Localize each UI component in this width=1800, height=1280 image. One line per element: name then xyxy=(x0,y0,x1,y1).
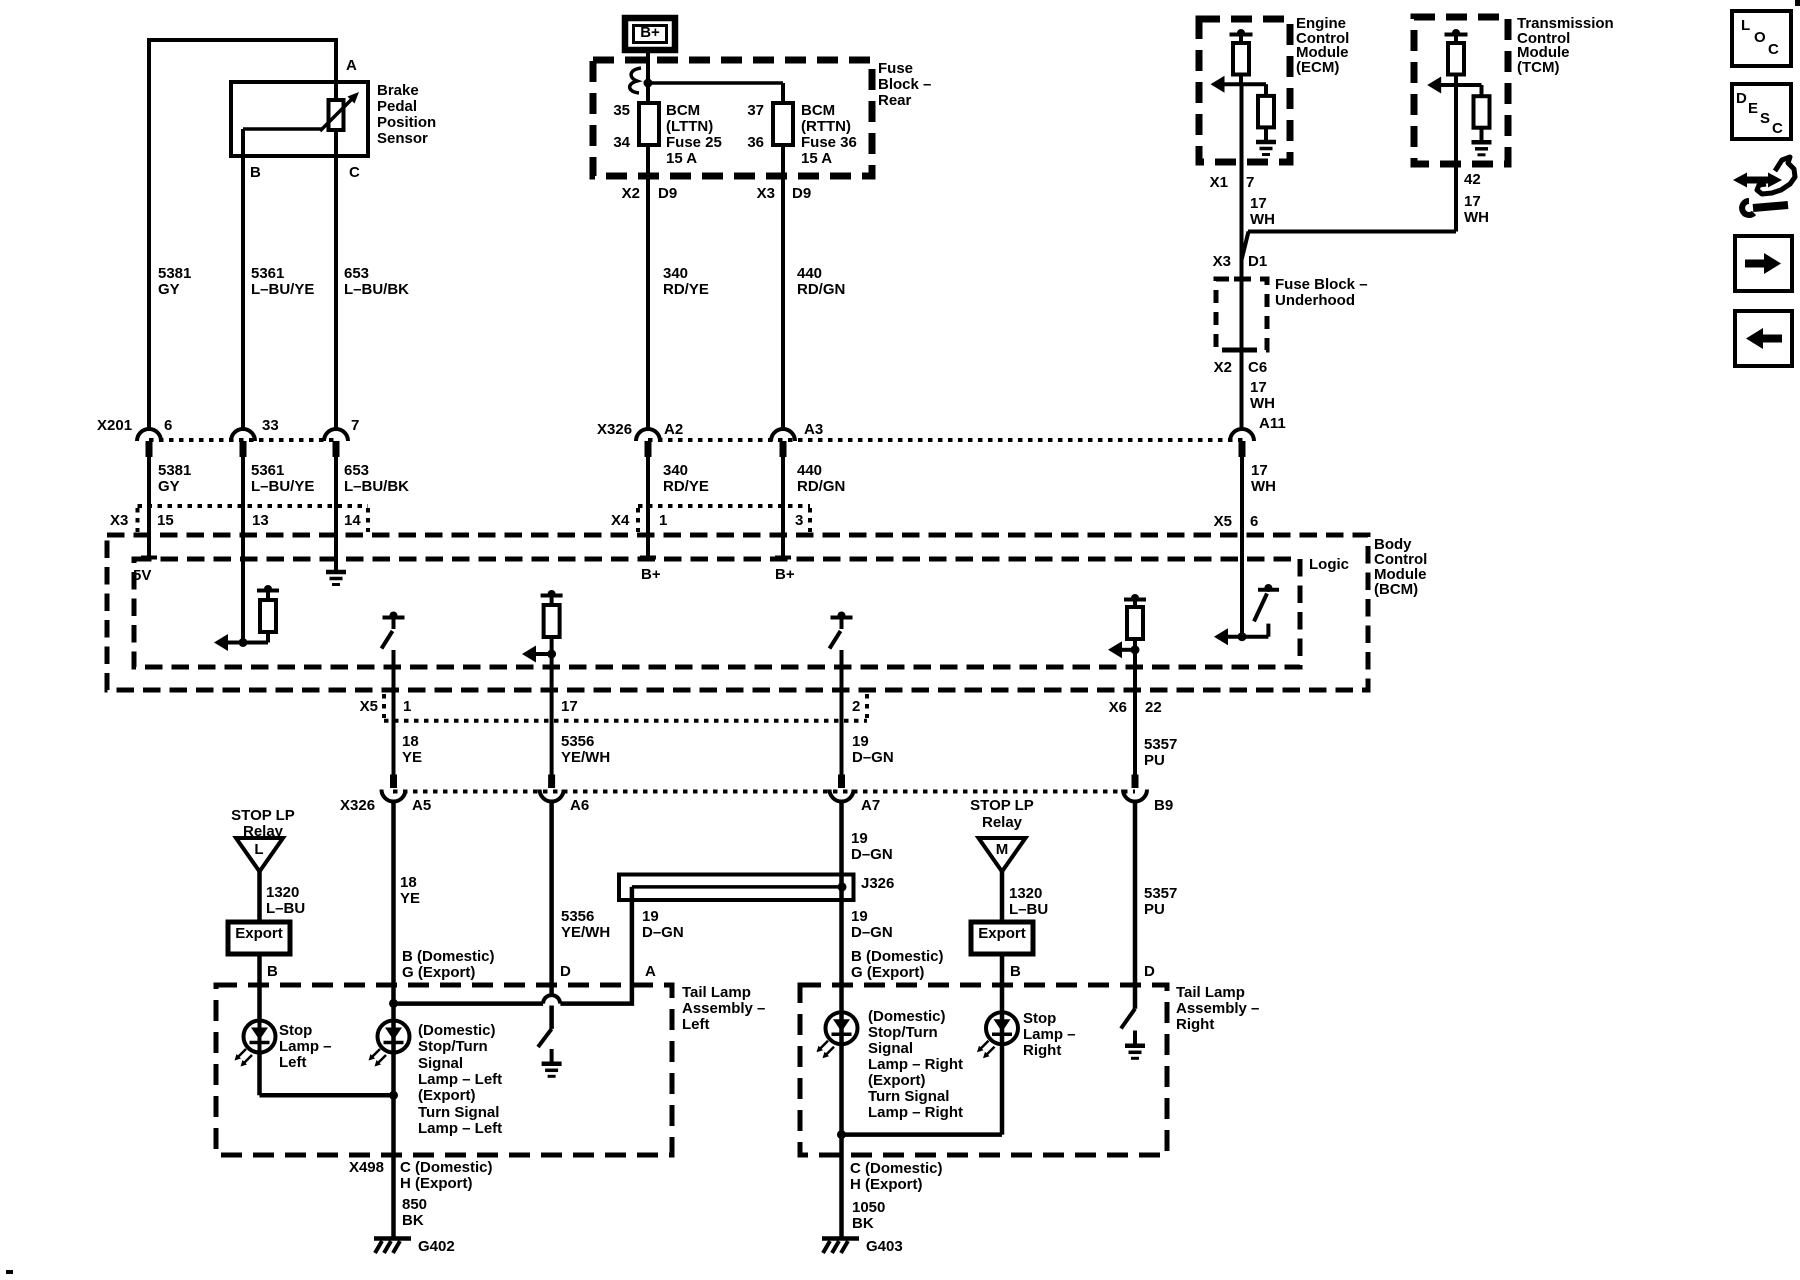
wire B+ feed xyxy=(646,50,650,103)
svg-text:B: B xyxy=(250,164,261,181)
splice pack J326 xyxy=(619,875,854,901)
node B+ pin1 xyxy=(640,556,656,560)
export box right xyxy=(971,922,1033,954)
svg-text:33: 33 xyxy=(262,417,279,434)
wire TCM pin 42 xyxy=(1454,85,1458,232)
page corner marks xyxy=(1795,0,1800,6)
wire 5381 GY lower xyxy=(147,457,151,559)
connector pin A5 xyxy=(390,775,397,789)
stop/turn left rays xyxy=(371,1049,380,1058)
connector pin A11 xyxy=(1230,429,1254,441)
svg-text:STOP LP: STOP LP xyxy=(970,797,1034,814)
svg-text:X326: X326 xyxy=(597,421,632,438)
svg-text:B9: B9 xyxy=(1154,797,1173,814)
junction pin13 xyxy=(239,638,248,647)
svg-text:1: 1 xyxy=(659,512,667,529)
svg-text:D: D xyxy=(560,963,571,980)
svg-text:18: 18 xyxy=(402,733,419,750)
svg-text:C (Domestic): C (Domestic) xyxy=(400,1159,493,1176)
svg-text:(BCM): (BCM) xyxy=(1374,581,1418,598)
stop lamp left bulb xyxy=(244,1021,276,1053)
svg-text:X3: X3 xyxy=(110,512,128,529)
svg-text:Lamp – Right: Lamp – Right xyxy=(868,1056,963,1073)
ground G402 xyxy=(374,1236,411,1241)
svg-text:J326: J326 xyxy=(861,875,894,892)
svg-text:Lamp – Left: Lamp – Left xyxy=(418,1120,502,1137)
svg-text:BK: BK xyxy=(852,1215,874,1232)
wire stop lamp right to junction xyxy=(1000,1044,1005,1134)
svg-text:G403: G403 xyxy=(866,1238,903,1255)
fuse 36 BCM RTTN xyxy=(773,103,793,145)
svg-text:Stop: Stop xyxy=(1023,1010,1056,1027)
svg-text:L: L xyxy=(1741,17,1750,34)
svg-text:YE/WH: YE/WH xyxy=(561,749,610,766)
connector pin A2 xyxy=(636,429,660,441)
svg-text:19: 19 xyxy=(851,830,868,847)
wire 17 WH through underhood block xyxy=(1240,279,1244,429)
svg-text:BCM: BCM xyxy=(801,102,835,119)
wire 5356 YE/WH to lamp switch xyxy=(549,802,554,996)
svg-text:42: 42 xyxy=(1464,171,1481,188)
export box left xyxy=(228,922,290,954)
svg-text:6: 6 xyxy=(164,417,172,434)
svg-text:H (Export): H (Export) xyxy=(400,1175,473,1192)
wire 653 C leg xyxy=(334,156,338,429)
svg-text:5381: 5381 xyxy=(158,265,191,282)
svg-text:1320: 1320 xyxy=(266,884,299,901)
icon wiring squiggle xyxy=(1744,177,1770,184)
TCM internal pullup resistor xyxy=(1452,29,1460,37)
connector pin A7 xyxy=(838,775,845,789)
svg-text:Signal: Signal xyxy=(418,1055,463,1072)
svg-text:(Export): (Export) xyxy=(418,1087,476,1104)
svg-text:Turn Signal: Turn Signal xyxy=(418,1104,499,1121)
BCM pin13 input arrow xyxy=(228,641,268,645)
svg-text:A6: A6 xyxy=(570,797,589,814)
svg-text:Logic: Logic xyxy=(1309,556,1349,573)
svg-text:WH: WH xyxy=(1250,211,1275,228)
svg-text:Sensor: Sensor xyxy=(377,130,428,147)
svg-text:Right: Right xyxy=(1023,1042,1061,1059)
TCM dashed box xyxy=(1414,17,1508,164)
svg-text:(LTTN): (LTTN) xyxy=(666,118,713,135)
wire 19 D-GN branch to pin A xyxy=(560,887,632,1004)
svg-text:A2: A2 xyxy=(664,421,683,438)
svg-text:Assembly –: Assembly – xyxy=(682,1000,765,1017)
connector pin A3 xyxy=(771,429,795,441)
wire fuse36 out D9 xyxy=(781,145,785,429)
svg-text:Fuse 25: Fuse 25 xyxy=(666,134,722,151)
svg-text:15 A: 15 A xyxy=(666,150,697,167)
svg-text:L–BU/BK: L–BU/BK xyxy=(344,478,409,495)
svg-text:Brake: Brake xyxy=(377,82,419,99)
BCM pullup 5356 xyxy=(548,590,556,598)
tail lamp assembly right dashed box xyxy=(800,985,1167,1155)
wire 653 L-BU/BK lower xyxy=(334,457,338,535)
svg-text:5356: 5356 xyxy=(561,733,594,750)
TCM internal ground xyxy=(1472,140,1492,145)
svg-text:19: 19 xyxy=(642,908,659,925)
svg-text:(RTTN): (RTTN) xyxy=(801,118,851,135)
svg-text:Right: Right xyxy=(1176,1016,1214,1033)
connector pin A6 xyxy=(548,775,555,789)
svg-text:440: 440 xyxy=(797,462,822,479)
svg-text:Stop/Turn: Stop/Turn xyxy=(868,1024,938,1041)
svg-text:Rear: Rear xyxy=(878,92,912,109)
svg-text:Export: Export xyxy=(235,925,283,942)
ECM input arrow xyxy=(1224,82,1241,86)
wire 1320 L-BU left xyxy=(257,872,262,923)
svg-text:D–GN: D–GN xyxy=(642,924,684,941)
svg-text:D: D xyxy=(1144,963,1155,980)
svg-text:653: 653 xyxy=(344,462,369,479)
svg-text:D9: D9 xyxy=(658,185,677,202)
wire 19 D-GN upper xyxy=(840,650,844,775)
svg-text:(TCM): (TCM) xyxy=(1517,59,1559,76)
BCM pullup X6-22 xyxy=(1131,594,1139,602)
svg-text:Tail Lamp: Tail Lamp xyxy=(1176,984,1245,1001)
potentiometer inside sensor xyxy=(334,82,338,100)
ECM internal ground xyxy=(1256,140,1276,145)
svg-text:RD/GN: RD/GN xyxy=(797,478,845,495)
svg-text:17: 17 xyxy=(1250,379,1267,396)
svg-text:35: 35 xyxy=(613,102,630,119)
svg-text:6: 6 xyxy=(1250,513,1258,530)
svg-text:B+: B+ xyxy=(775,566,795,583)
svg-text:Relay: Relay xyxy=(982,814,1023,831)
wire horizontal to A5 junction xyxy=(394,1001,544,1006)
svg-text:X498: X498 xyxy=(349,1159,384,1176)
BCM 5356 arrow xyxy=(536,652,552,656)
svg-text:5357: 5357 xyxy=(1144,736,1177,753)
svg-text:Left: Left xyxy=(682,1016,710,1033)
svg-text:19: 19 xyxy=(851,908,868,925)
svg-text:C: C xyxy=(349,164,360,181)
svg-text:X201: X201 xyxy=(97,417,132,434)
svg-text:Fuse Block –: Fuse Block – xyxy=(1275,276,1368,293)
svg-text:YE/WH: YE/WH xyxy=(561,924,610,941)
wiper wire from B xyxy=(241,129,245,156)
svg-text:340: 340 xyxy=(663,462,688,479)
TCM internal resistor to ground xyxy=(1456,83,1482,87)
svg-text:Fuse 36: Fuse 36 xyxy=(801,134,857,151)
svg-text:X5: X5 xyxy=(360,698,378,715)
svg-text:X326: X326 xyxy=(340,797,375,814)
svg-text:B+: B+ xyxy=(641,566,661,583)
svg-text:WH: WH xyxy=(1251,478,1276,495)
svg-text:5V: 5V xyxy=(133,567,151,584)
svg-text:L: L xyxy=(254,841,263,858)
svg-text:19: 19 xyxy=(852,733,869,750)
svg-text:M: M xyxy=(996,841,1009,858)
BCM driver A11 xyxy=(1264,584,1272,592)
svg-text:Position: Position xyxy=(377,114,436,131)
wire 340 RD/YE lower xyxy=(646,457,650,558)
wire to stop lamp right xyxy=(1000,954,1005,1044)
svg-text:3: 3 xyxy=(795,512,803,529)
wire B9 5357 PU down xyxy=(1133,802,1138,1009)
ground G403 xyxy=(822,1236,859,1241)
svg-text:X4: X4 xyxy=(611,512,630,529)
node 5V xyxy=(141,556,157,560)
svg-text:D–GN: D–GN xyxy=(851,924,893,941)
wire 5361 L-BU/YE lower xyxy=(241,457,245,535)
svg-text:5356: 5356 xyxy=(561,908,594,925)
stop/turn right rays xyxy=(819,1041,828,1050)
svg-text:Stop: Stop xyxy=(279,1022,312,1039)
connector X201 pin 33 xyxy=(231,429,255,441)
wire 5356 YE/WH upper xyxy=(550,654,554,775)
svg-text:S: S xyxy=(1760,110,1770,127)
BCM logic dashed box xyxy=(134,559,1300,667)
svg-text:X5: X5 xyxy=(1214,513,1232,530)
svg-text:Lamp – Left: Lamp – Left xyxy=(418,1071,502,1088)
svg-text:X3: X3 xyxy=(757,185,775,202)
svg-text:1320: 1320 xyxy=(1009,885,1042,902)
svg-text:X2: X2 xyxy=(1214,359,1232,376)
svg-text:D1: D1 xyxy=(1248,253,1267,270)
svg-text:YE: YE xyxy=(402,749,422,766)
svg-text:C: C xyxy=(1772,120,1783,137)
svg-text:36: 36 xyxy=(747,134,764,151)
ECM dashed box xyxy=(1199,19,1290,162)
svg-text:STOP LP: STOP LP xyxy=(231,807,295,824)
wiper arrow xyxy=(320,99,352,131)
D switch to ground right xyxy=(1121,1009,1135,1029)
svg-text:Pedal: Pedal xyxy=(377,98,417,115)
svg-text:X2: X2 xyxy=(622,185,640,202)
BCM driver switch A5 xyxy=(390,612,398,620)
svg-text:Lamp – Right: Lamp – Right xyxy=(868,1104,963,1121)
tail lamp assembly left dashed box xyxy=(216,985,672,1155)
fuse block rear dashed box xyxy=(593,60,872,176)
svg-text:L–BU/YE: L–BU/YE xyxy=(251,478,314,495)
BCM pin14 internal ground xyxy=(334,535,338,572)
svg-text:Turn Signal: Turn Signal xyxy=(868,1088,949,1105)
stop lamp right rays xyxy=(980,1041,989,1050)
svg-text:Left: Left xyxy=(279,1054,307,1071)
svg-text:A7: A7 xyxy=(861,797,880,814)
BCM X6 arrow xyxy=(1122,648,1135,652)
svg-text:GY: GY xyxy=(158,281,180,298)
wire 5361 B leg xyxy=(241,156,245,429)
ECM internal pullup resistor xyxy=(1237,29,1245,37)
svg-text:14: 14 xyxy=(344,512,361,529)
svg-text:(Domestic): (Domestic) xyxy=(418,1022,496,1039)
svg-text:1050: 1050 xyxy=(852,1199,885,1216)
svg-text:E: E xyxy=(1748,100,1758,117)
svg-text:C6: C6 xyxy=(1248,359,1267,376)
svg-text:X6: X6 xyxy=(1109,699,1127,716)
stop lamp left rays xyxy=(237,1049,246,1058)
svg-text:GY: GY xyxy=(158,478,180,495)
svg-text:WH: WH xyxy=(1464,209,1489,226)
svg-text:A: A xyxy=(645,963,656,980)
svg-text:B: B xyxy=(1010,963,1021,980)
wire 440 RD/GN lower xyxy=(781,457,785,558)
svg-text:850: 850 xyxy=(402,1196,427,1213)
svg-text:(Domestic): (Domestic) xyxy=(868,1008,946,1025)
stop/turn signal lamp left bulb xyxy=(378,1021,410,1053)
svg-text:L–BU/YE: L–BU/YE xyxy=(251,281,314,298)
svg-text:L–BU: L–BU xyxy=(266,900,305,917)
svg-text:13: 13 xyxy=(252,512,269,529)
BCM pin13 pullup resistor xyxy=(264,585,272,593)
svg-text:18: 18 xyxy=(400,874,417,891)
svg-text:L–BU/BK: L–BU/BK xyxy=(344,281,409,298)
svg-text:Fuse: Fuse xyxy=(878,60,913,77)
wire to stop lamp left xyxy=(257,954,262,1021)
svg-text:G (Export): G (Export) xyxy=(851,964,924,981)
wire TCM to ECM junction xyxy=(1248,230,1456,234)
splice clip symbol xyxy=(630,68,641,93)
wire 1320 L-BU right xyxy=(1000,872,1005,923)
svg-text:5361: 5361 xyxy=(251,265,284,282)
svg-text:37: 37 xyxy=(747,102,764,119)
svg-text:653: 653 xyxy=(344,265,369,282)
svg-text:1: 1 xyxy=(403,698,411,715)
svg-text:RD/YE: RD/YE xyxy=(663,281,709,298)
svg-text:RD/YE: RD/YE xyxy=(663,478,709,495)
BCM driver switch A7 xyxy=(838,612,846,620)
svg-text:Tail Lamp: Tail Lamp xyxy=(682,984,751,1001)
svg-text:7: 7 xyxy=(351,417,359,434)
connector X201 pin 7 xyxy=(324,429,348,441)
body control module dashed box xyxy=(107,535,1368,690)
svg-text:PU: PU xyxy=(1144,752,1165,769)
node B+ pin3 xyxy=(775,556,791,560)
svg-text:2: 2 xyxy=(852,698,860,715)
svg-text:(Export): (Export) xyxy=(868,1072,926,1089)
svg-text:A3: A3 xyxy=(804,421,823,438)
connector X326 lower row dotted line xyxy=(393,790,1135,794)
wire 18 YE upper xyxy=(392,650,396,775)
fuse 25 BCM LTTN xyxy=(639,103,659,145)
svg-text:BCM: BCM xyxy=(666,102,700,119)
svg-text:17: 17 xyxy=(1250,195,1267,212)
stop lamp right bulb xyxy=(986,1012,1018,1044)
wire sensor loop: 5381 left leg + top + A leg xyxy=(149,40,336,429)
connector X5 output row dotted line xyxy=(384,719,867,723)
svg-text:L–BU: L–BU xyxy=(1009,901,1048,918)
wire 19 D-GN above J326 xyxy=(839,802,844,1237)
connector X3 dotted box xyxy=(138,504,369,508)
svg-text:Lamp –: Lamp – xyxy=(1023,1026,1076,1043)
svg-text:D: D xyxy=(1736,90,1747,107)
svg-text:440: 440 xyxy=(797,265,822,282)
svg-text:17: 17 xyxy=(1464,193,1481,210)
connector X4 dotted box xyxy=(638,504,810,508)
svg-text:C: C xyxy=(1768,41,1779,58)
svg-text:5381: 5381 xyxy=(158,462,191,479)
J326 internal bus wire xyxy=(632,885,842,889)
svg-text:X3: X3 xyxy=(1213,253,1231,270)
svg-text:BK: BK xyxy=(402,1212,424,1229)
A6 switch to ground xyxy=(549,1006,554,1029)
svg-text:G402: G402 xyxy=(418,1238,455,1255)
svg-text:34: 34 xyxy=(613,134,630,151)
B+ battery box xyxy=(625,18,675,50)
relay M triangle xyxy=(979,838,1026,872)
connector pin B9 xyxy=(1132,775,1139,789)
svg-text:Assembly –: Assembly – xyxy=(1176,1000,1259,1017)
icon LOC box xyxy=(1732,11,1791,66)
junction B+ bus xyxy=(644,79,653,88)
wire 5357 PU upper xyxy=(1133,650,1137,775)
svg-text:D–GN: D–GN xyxy=(852,749,894,766)
svg-text:17: 17 xyxy=(561,698,578,715)
svg-text:15: 15 xyxy=(157,512,174,529)
ECM internal resistor to ground xyxy=(1241,82,1266,86)
brake pedal position sensor box xyxy=(231,82,368,156)
svg-text:Block –: Block – xyxy=(878,76,931,93)
svg-text:Stop/Turn: Stop/Turn xyxy=(418,1038,488,1055)
svg-text:YE: YE xyxy=(400,890,420,907)
fuse block underhood dashed box xyxy=(1216,279,1267,350)
svg-text:X1: X1 xyxy=(1210,174,1228,191)
relay L triangle xyxy=(236,838,283,872)
svg-text:B: B xyxy=(267,963,278,980)
svg-text:G (Export): G (Export) xyxy=(402,964,475,981)
svg-text:(ECM): (ECM) xyxy=(1296,59,1339,76)
svg-text:H (Export): H (Export) xyxy=(850,1176,923,1193)
svg-text:5361: 5361 xyxy=(251,462,284,479)
svg-text:22: 22 xyxy=(1145,699,1162,716)
svg-text:WH: WH xyxy=(1250,395,1275,412)
svg-text:17: 17 xyxy=(1251,462,1268,479)
svg-text:C (Domestic): C (Domestic) xyxy=(850,1160,943,1177)
svg-text:5357: 5357 xyxy=(1144,885,1177,902)
connector X201 row dotted line xyxy=(149,438,336,442)
svg-text:RD/GN: RD/GN xyxy=(797,281,845,298)
svg-text:O: O xyxy=(1754,29,1766,46)
svg-text:Lamp –: Lamp – xyxy=(279,1038,332,1055)
wire crossover hump at A6 xyxy=(543,995,560,1003)
svg-text:A11: A11 xyxy=(1259,415,1286,432)
svg-text:D9: D9 xyxy=(792,185,811,202)
svg-text:A: A xyxy=(346,57,357,74)
connector X201 pin 6 xyxy=(137,429,161,441)
svg-text:B (Domestic): B (Domestic) xyxy=(851,948,944,965)
TCM input arrow xyxy=(1441,83,1456,87)
svg-text:Signal: Signal xyxy=(868,1040,913,1057)
wire 18 YE to lamp xyxy=(391,802,396,1237)
connector X326 row dotted line xyxy=(648,438,1245,442)
svg-text:D–GN: D–GN xyxy=(851,846,893,863)
svg-text:Export: Export xyxy=(978,925,1026,942)
icon back arrow box xyxy=(1735,311,1792,366)
icon DESC box xyxy=(1732,84,1791,139)
wire 17 WH lower xyxy=(1240,457,1244,637)
svg-text:Underhood: Underhood xyxy=(1275,292,1355,309)
svg-text:7: 7 xyxy=(1246,174,1254,191)
svg-text:B+: B+ xyxy=(640,24,660,41)
icon forward arrow box xyxy=(1735,236,1792,291)
svg-text:15 A: 15 A xyxy=(801,150,832,167)
wire ECM pin X1-7 xyxy=(1240,84,1244,279)
svg-text:A5: A5 xyxy=(412,797,431,814)
svg-text:PU: PU xyxy=(1144,901,1165,918)
svg-text:340: 340 xyxy=(663,265,688,282)
wire fuse25 out D9 xyxy=(646,145,650,429)
svg-text:B (Domestic): B (Domestic) xyxy=(402,948,495,965)
stop/turn signal lamp right bulb xyxy=(826,1012,858,1044)
wire stop lamp left to junction xyxy=(257,1053,262,1096)
